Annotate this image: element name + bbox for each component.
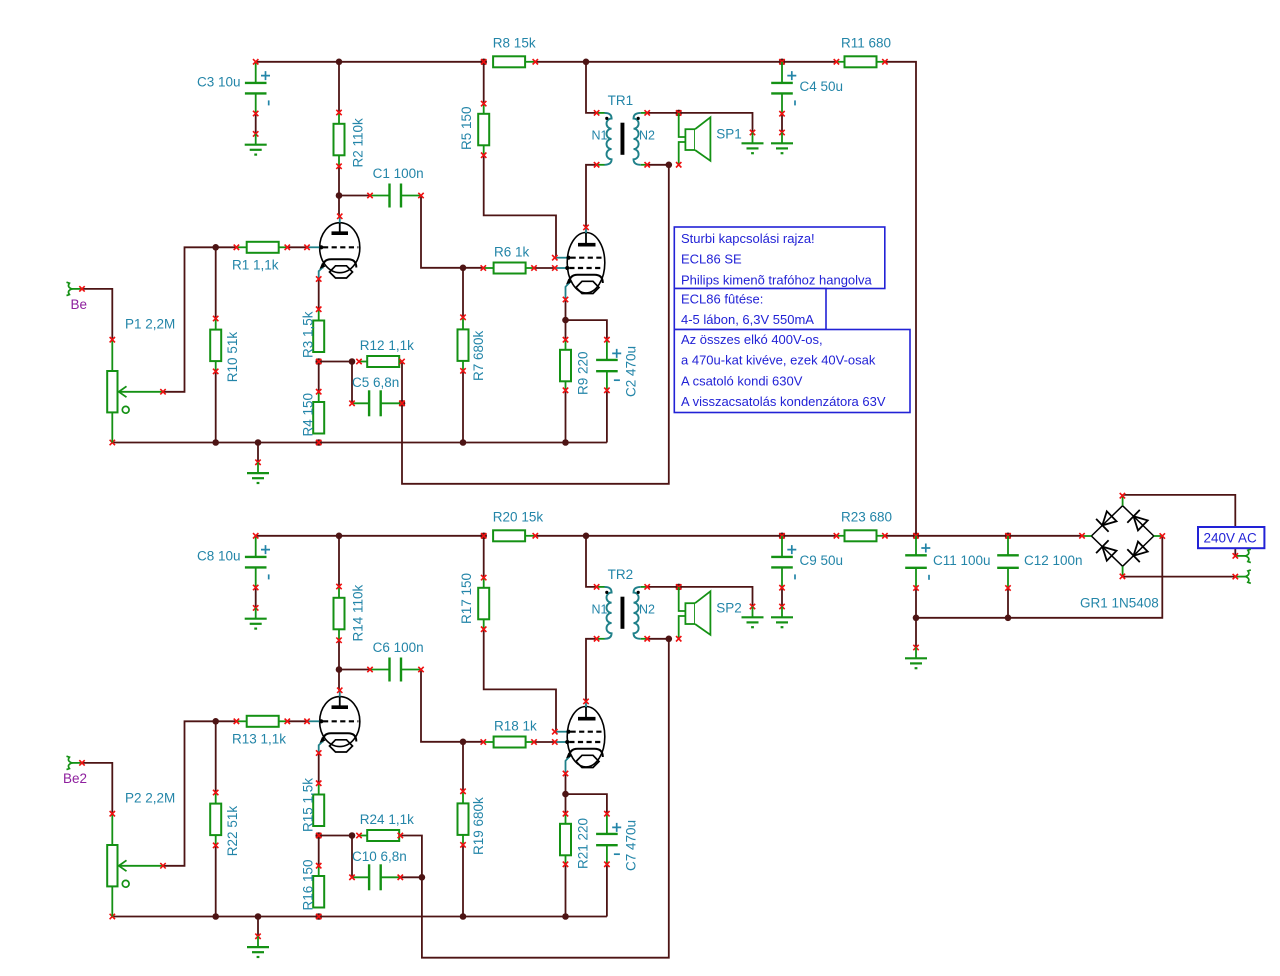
wire: PSU node to bridge + (916, 535, 1082, 537)
wire: plate node to C6 100n (339, 669, 370, 671)
wire: R6 1k to pentode g1 (534, 267, 555, 269)
svg-text:C2 470u: C2 470u (624, 346, 639, 397)
svg-text:C6 100n: C6 100n (373, 640, 424, 655)
capacitor C5 6,8n (349, 375, 404, 416)
capacitor C10 6,8n (349, 849, 406, 890)
junction: triode cathode R15 1,5k/R16 150/R24 1,1k (315, 832, 322, 839)
svg-text:R16 150: R16 150 (301, 859, 316, 910)
junction pin mark (779, 533, 784, 538)
junction: triode cathode R3 1,5k/R4 150/R12 1,1k (315, 358, 322, 365)
junction: R10 51k / rail (212, 439, 219, 446)
svg-text:R20 15k: R20 15k (493, 510, 544, 525)
wire: R5 150 to pentode g2 (484, 155, 556, 258)
wire: Be input to P1 2,2M (82, 289, 112, 340)
wire: B+ rail ch1 mid segment (535, 61, 836, 63)
svg-text:R23 680: R23 680 (841, 510, 892, 525)
wire: R12 1,1k node to C5 6,8n (351, 362, 353, 404)
junction pin mark (676, 110, 681, 115)
wire: node to R6 1k (463, 267, 483, 269)
svg-text:N2: N2 (639, 128, 655, 142)
svg-text:SP2: SP2 (716, 601, 742, 616)
resistor R16 150 (301, 859, 325, 910)
junction: SP1 bottom / feedback (666, 162, 673, 169)
wire: B+ node to TR2 primary top (586, 536, 597, 587)
wire: plate node to C1 100n (339, 195, 370, 197)
resistor R3 1,5k (301, 307, 325, 359)
note box: heater (674, 289, 826, 330)
triode V2 triode (ECL86 triode section) (304, 688, 360, 756)
wire: R14 110k top feed (338, 536, 340, 587)
junction: R21 220 / rail (562, 913, 569, 920)
junction: rail ground stub (255, 439, 262, 446)
junction pin mark (316, 833, 321, 838)
wire: pentode cathode node (565, 774, 567, 795)
svg-text:C4 50u: C4 50u (800, 79, 844, 94)
junction: B+ / C12 (1005, 533, 1012, 540)
svg-text:R2 110k: R2 110k (351, 118, 366, 168)
junction: SP1 top (675, 110, 682, 117)
input connector Be2 (63, 756, 87, 786)
wire: C3 10u to ground pin (255, 114, 257, 134)
svg-text:Az összes elkó 400V-os,: Az összes elkó 400V-os, (681, 332, 823, 347)
junction: C5 / feedback (399, 400, 406, 407)
svg-text:R21 220: R21 220 (576, 818, 591, 869)
junction: rail ground stub (255, 913, 262, 920)
svg-text:Be2: Be2 (63, 771, 87, 786)
ground (rail ch2) (247, 934, 269, 957)
wire: rail ground stub (257, 443, 259, 463)
wire: B+ rail ch2 mid segment (535, 535, 836, 537)
svg-text:A csatoló kondi 630V: A csatoló kondi 630V (681, 373, 803, 388)
wire: bridge AC2 to mains connector (1122, 576, 1235, 578)
node label box: 240V AC (1198, 527, 1264, 548)
wire: R24 right jog (400, 836, 422, 878)
wire: B+ rail ch1 left segment (256, 61, 484, 63)
svg-text:C11 100u: C11 100u (933, 553, 991, 568)
triode V1 triode (ECL86 triode section) (304, 214, 360, 282)
svg-text:N2: N2 (639, 602, 655, 616)
transformer TR2 (592, 567, 656, 641)
wire: TR2 primary bottom to pentode plate (586, 639, 597, 702)
pin mark C3 10u (253, 59, 258, 64)
wire: feedback from SP2 to R24/C10 (422, 639, 669, 958)
resistor R15 1,5k (301, 778, 325, 832)
junction: B+ / TR2 (583, 533, 590, 540)
svg-text:Philips kimenõ trafóhoz hangol: Philips kimenõ trafóhoz hangolva (681, 272, 873, 287)
junction: B+ / R17 150 (480, 533, 487, 540)
svg-text:ECL86 SE: ECL86 SE (681, 252, 742, 267)
wire: cathode node to R16 150 (318, 836, 320, 866)
wire: R18 1k node to R19 680k (462, 742, 464, 792)
svg-text:R3 1,5k: R3 1,5k (301, 311, 316, 358)
capacitor C7 470u (596, 811, 639, 871)
wire: triode cathode to R15 1,5k (318, 753, 320, 783)
junction: triode plate / C1 100n (336, 192, 343, 199)
wire: triode cathode to R3 1,5k (318, 279, 320, 309)
wire: C6 100n to R18 1k node (421, 670, 463, 742)
junction: B+ / C9 50u (779, 533, 786, 540)
svg-text:C5 6,8n: C5 6,8n (352, 375, 399, 390)
wire: B+ rail to right-edge drop (885, 62, 916, 536)
junction: R19 680k / rail (460, 913, 467, 920)
wire: P1 2,2M wiper to grid node (163, 247, 216, 391)
junction: R22 51k / rail (212, 913, 219, 920)
junction: B+ / TR1 (583, 59, 590, 66)
resistor R17 150 (459, 573, 489, 632)
junction pin mark (316, 440, 321, 445)
svg-text:C8 10u: C8 10u (197, 549, 241, 564)
wire: C2 470u to ground rail (606, 390, 608, 442)
junction: rail left pin ch2 (110, 914, 115, 919)
svg-text:C10 6,8n: C10 6,8n (352, 849, 407, 864)
svg-text:R12 1,1k: R12 1,1k (360, 338, 414, 353)
ground (under SP2) (742, 604, 764, 627)
junction pin mark (481, 59, 486, 64)
pentode V1 pentode (ECL86 pentode section) (552, 225, 605, 303)
wire: pentode cathode node (565, 300, 567, 321)
wire: B+ node to TR1 primary top (586, 62, 597, 113)
junction: R9 220 / rail (562, 439, 569, 446)
wire: TR1 secondary bottom to feedback node (647, 164, 669, 166)
svg-text:R24 1,1k: R24 1,1k (360, 812, 414, 827)
wire: R6 1k node to R7 680k (462, 268, 464, 318)
wire: R18 1k to pentode g1 (534, 741, 555, 743)
capacitor C3 10u (197, 62, 270, 116)
note box: capacitor voltages (674, 330, 910, 413)
wire: cathode node to C7 470u (566, 794, 607, 814)
ground (rail ch1) (247, 460, 269, 483)
svg-text:R8 15k: R8 15k (493, 36, 536, 51)
wire: TR1 secondary top to SP1 (647, 113, 752, 133)
wire: R2 110k bottom to triode plate node (338, 166, 340, 195)
svg-text:R19 680k: R19 680k (471, 797, 486, 855)
resistor R23 680 (834, 510, 892, 542)
note box: title (674, 227, 885, 289)
svg-text:R9 220: R9 220 (576, 351, 591, 395)
junction: R24 1,1k left node (349, 832, 356, 839)
resistor R6 1k (481, 244, 537, 273)
potentiometer P2 2,2M (107, 790, 175, 916)
wire: minus rail to bridge - (916, 536, 1162, 618)
svg-text:R11 680: R11 680 (841, 36, 891, 51)
svg-text:Be: Be (71, 297, 88, 312)
svg-text:R7 680k: R7 680k (471, 330, 486, 381)
ground (under SP1) (742, 130, 764, 153)
wire: C8 10u to ground pin (255, 588, 257, 608)
wire: plate node to triode plate pin (338, 196, 340, 217)
svg-text:C1 100n: C1 100n (373, 166, 424, 181)
potentiometer P1 2,2M (107, 316, 175, 442)
wire: cathode node to R12 1,1k node (319, 361, 352, 363)
wire: bridge AC1 to mains connector (1122, 495, 1235, 556)
transformer TR1 (592, 93, 656, 167)
junction: B+ / R2 110k (336, 59, 343, 66)
wire: plate node to triode plate pin (338, 670, 340, 691)
resistor R14 110k (334, 584, 366, 643)
svg-text:a 470u-kat kivéve, ezek 40V-os: a 470u-kat kivéve, ezek 40V-osak (681, 353, 876, 368)
wire: ground rail ch1 (112, 442, 607, 444)
wire: node to R18 1k (463, 741, 483, 743)
resistor R5 150 (459, 101, 489, 158)
wire: cathode node to C2 470u (566, 320, 607, 340)
wire: grid node to R13 1,1k (216, 720, 237, 722)
junction: rail left pin ch1 (110, 440, 115, 445)
junction: grid node R13 1,1k/R22 51k (212, 718, 219, 725)
wire: R23 to PSU node (885, 535, 916, 537)
svg-text:C7 470u: C7 470u (624, 820, 639, 871)
junction: B+ / C11 (913, 533, 920, 540)
wire: R13 1,1k to triode grid (287, 720, 307, 722)
svg-text:R15 1,5k: R15 1,5k (301, 778, 316, 832)
svg-text:4-5 lábon, 6,3V 550mA: 4-5 lábon, 6,3V 550mA (681, 312, 814, 327)
resistor R1 1,1k (232, 242, 290, 272)
resistor R13 1,1k (232, 716, 290, 747)
junction: C6 100n / R18 1k / R19 680k (460, 739, 467, 746)
mains connector pin 1 (240V AC) (1233, 549, 1251, 562)
junction: B+ / R14 110k (336, 533, 343, 540)
svg-text:R6 1k: R6 1k (494, 244, 530, 259)
junction pin mark (1005, 533, 1010, 538)
svg-text:R17 150: R17 150 (459, 573, 474, 624)
resistor R19 680k (458, 789, 487, 855)
resistor R22 51k (210, 790, 240, 856)
svg-text:C3 10u: C3 10u (197, 75, 241, 90)
wire: Be2 input to P2 2,2M (82, 763, 112, 814)
svg-text:240V AC: 240V AC (1204, 531, 1258, 546)
wire: C9 50u to ground pin (781, 588, 783, 607)
svg-text:TR1: TR1 (608, 93, 634, 108)
wire: P2 2,2M wiper to grid node (163, 721, 216, 866)
svg-text:Sturbi kapcsolási rajza!: Sturbi kapcsolási rajza! (681, 231, 815, 246)
resistor R20 15k (493, 510, 544, 542)
wire: C11 to minus rail (915, 588, 917, 618)
wire: B+ to R17 150 (483, 536, 485, 578)
svg-text:GR1 1N5408: GR1 1N5408 (1080, 596, 1159, 611)
mains connector pin 2 (240V AC) (1233, 570, 1251, 583)
junction pin mark (913, 533, 918, 538)
svg-text:R14 110k: R14 110k (351, 584, 366, 641)
wire: R22 51k to ground rail (215, 845, 217, 916)
junction: minus rail / C12 (1005, 615, 1012, 622)
ground (under C4 50u) (771, 130, 793, 153)
ground (under C8 10u) (245, 605, 267, 628)
svg-text:R1 1,1k: R1 1,1k (232, 257, 279, 272)
ground (under C9 50u) (771, 604, 793, 627)
junction: pentode cathode R9 220/C2 470u (562, 317, 569, 324)
svg-text:R18 1k: R18 1k (494, 718, 537, 733)
ground (PSU) (905, 645, 927, 668)
junction: triode plate / C6 100n (336, 666, 343, 673)
wire: C7 470u to ground rail (606, 864, 608, 916)
wire: TR2 secondary top to SP2 (647, 587, 752, 607)
wire: R21 220 to ground rail (565, 864, 567, 916)
speaker SP1 (676, 113, 742, 168)
junction pin mark (316, 359, 321, 364)
wire: R7 680k to ground rail (462, 371, 464, 443)
svg-text:SP1: SP1 (716, 127, 742, 142)
capacitor C6 100n (367, 640, 423, 682)
resistor R8 15k (493, 36, 538, 68)
resistor R7 680k (458, 315, 487, 381)
svg-text:ECL86 fûtése:: ECL86 fûtése: (681, 291, 763, 306)
svg-text:P1 2,2M: P1 2,2M (125, 316, 175, 331)
capacitor C4 50u (771, 62, 843, 117)
wire: R10 51k to ground rail (215, 371, 217, 442)
junction pin mark (676, 584, 681, 589)
wire: ground rail ch2 (112, 916, 607, 918)
pin mark C8 10u (253, 533, 258, 538)
speaker SP2 (676, 587, 742, 642)
svg-text:R5 150: R5 150 (459, 106, 474, 150)
capacitor C12 100n (997, 536, 1082, 591)
junction pin mark (316, 914, 321, 919)
svg-text:R13 1,1k: R13 1,1k (232, 731, 286, 746)
junction: pentode cathode R21 220/C7 470u (562, 791, 569, 798)
junction: R12 1,1k left node (349, 358, 356, 365)
wire: TR1 primary bottom to pentode plate (586, 165, 597, 228)
pentode V2 pentode (ECL86 pentode section) (552, 699, 605, 777)
bridge rectifier GR1 1N5408 (1079, 493, 1165, 611)
wire: feedback from SP1 to R12/C5 (402, 165, 669, 484)
junction: grid node R1 1,1k/R10 51k (212, 244, 219, 251)
junction: R4 150 / rail (315, 439, 322, 446)
svg-text:P2 2,2M: P2 2,2M (125, 790, 175, 805)
svg-text:N1: N1 (592, 128, 608, 142)
resistor R4 150 (301, 389, 325, 437)
junction: SP2 bottom / feedback (666, 636, 673, 643)
wire: C10 right to feedback node (400, 876, 422, 878)
wire: cathode node to R4 150 (318, 362, 320, 392)
junction: minus rail / C11 / ground (913, 615, 920, 622)
resistor R24 1,1k (356, 812, 414, 841)
capacitor C9 50u (771, 536, 843, 591)
wire: C1 100n to R6 1k node (421, 196, 463, 268)
junction: C10 / feedback (419, 874, 426, 881)
resistor R21 220 (560, 811, 591, 869)
resistor R11 680 (834, 36, 891, 68)
resistor R12 1,1k (356, 338, 414, 367)
svg-text:R10 51k: R10 51k (225, 332, 240, 383)
svg-text:R4 150: R4 150 (301, 393, 316, 437)
wire: R19 680k to ground rail (462, 845, 464, 917)
resistor R9 220 (560, 337, 591, 395)
wire: R14 110k bottom to triode plate node (338, 640, 340, 669)
resistor R2 110k (334, 110, 366, 169)
junction: C1 100n / R6 1k / R7 680k (460, 265, 467, 272)
wire: C4 50u to ground pin (781, 114, 783, 133)
wire: PSU ground stub (915, 618, 917, 648)
svg-text:R22 51k: R22 51k (225, 806, 240, 857)
wire: R12 right to C5 node (401, 362, 403, 404)
wire: TR2 secondary bottom to feedback node (647, 638, 669, 640)
junction: B+ / R5 150 (480, 59, 487, 66)
wire: grid node to R10 51k (215, 247, 217, 318)
wire: rail ground stub (257, 917, 259, 937)
ground (under C3 10u) (245, 131, 267, 154)
junction: R16 150 / rail (315, 913, 322, 920)
svg-text:TR2: TR2 (608, 567, 634, 582)
junction: SP2 top (675, 584, 682, 591)
input connector Be (67, 282, 88, 312)
resistor R18 1k (481, 718, 537, 747)
svg-text:C9 50u: C9 50u (800, 553, 844, 568)
wire: cathode node to R9 220 (565, 320, 567, 340)
wire: cathode node to R24 1,1k node (319, 835, 352, 837)
junction pin mark (481, 533, 486, 538)
wire: R17 150 to pentode g2 (484, 629, 556, 732)
svg-text:C12 100n: C12 100n (1024, 553, 1083, 568)
svg-text:N1: N1 (592, 602, 608, 616)
capacitor C11 100u (905, 536, 990, 591)
junction: B+ / C4 50u (779, 59, 786, 66)
junction pin mark (779, 59, 784, 64)
capacitor C2 470u (596, 337, 639, 397)
wire: grid node to R1 1,1k (216, 246, 237, 248)
junction pin mark (399, 401, 404, 406)
wire: R24 1,1k node to C10 6,8n (351, 836, 353, 878)
wire: R1 1,1k to triode grid (287, 246, 307, 248)
capacitor C8 10u (197, 536, 270, 590)
svg-text:A visszacsatolás kondenzátora: A visszacsatolás kondenzátora 63V (681, 394, 886, 409)
wire: cathode node to R21 220 (565, 794, 567, 814)
wire: R9 220 to ground rail (565, 390, 567, 442)
junction: R7 680k / rail (460, 439, 467, 446)
wire: grid node to R22 51k (215, 721, 217, 792)
wire: C12 to minus rail (1007, 588, 1009, 618)
wire: B+ to R5 150 (483, 62, 485, 104)
wire: B+ rail ch2 left segment (256, 535, 484, 537)
wire: R2 110k top feed (338, 62, 340, 113)
resistor R10 51k (210, 316, 240, 382)
capacitor C1 100n (367, 166, 423, 208)
